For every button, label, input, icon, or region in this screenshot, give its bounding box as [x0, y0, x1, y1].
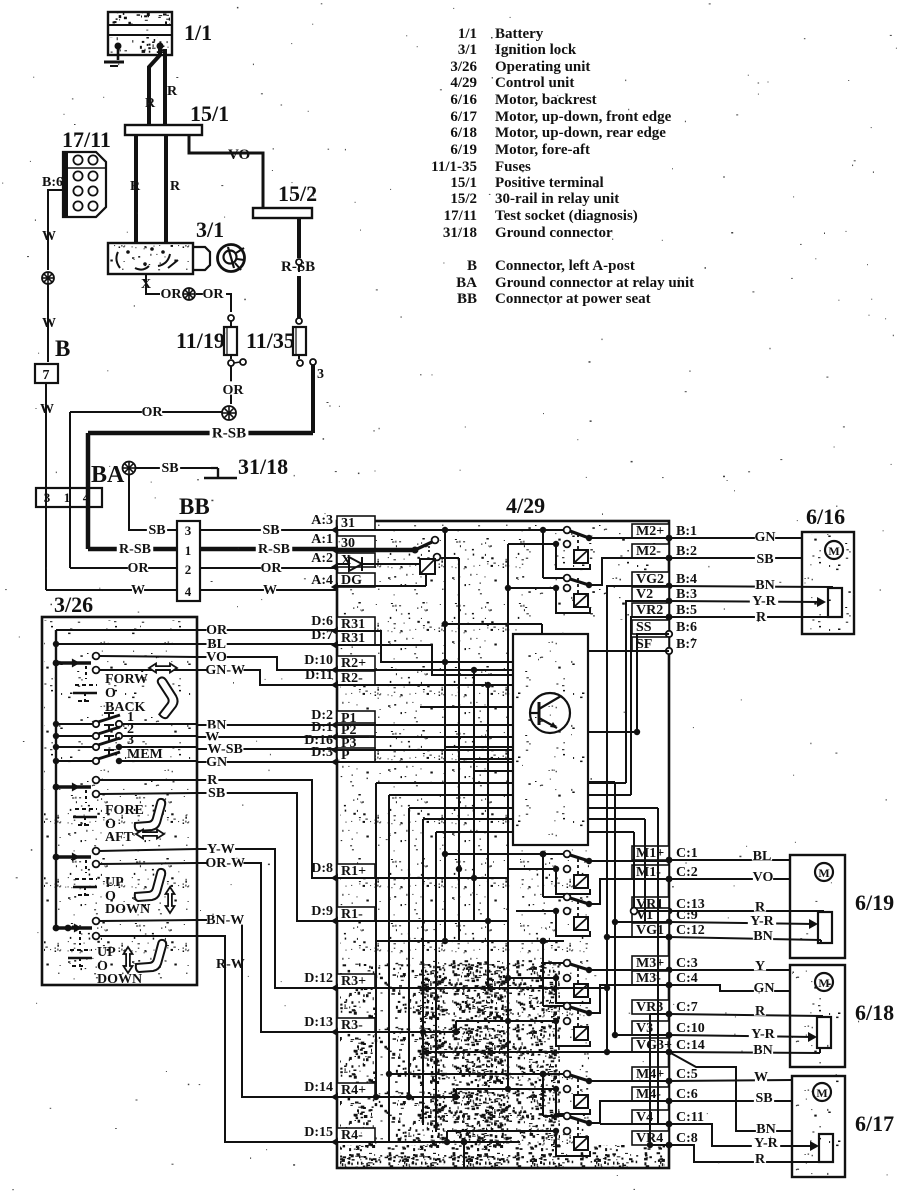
pin VG3+ / C:14 on 4/29 right edge	[632, 1038, 669, 1052]
wire OR into BB	[70, 567, 177, 569]
svg-text:6/18: 6/18	[450, 125, 477, 141]
wire GN-W from 3/26 to 4/29 D:11	[197, 670, 337, 685]
pin M3+ / C:3 on 4/29 right edge	[632, 956, 669, 970]
wire OR BB to A:2	[200, 567, 337, 569]
svg-text:A:2: A:2	[311, 551, 333, 566]
pin VG1 / C:12 on 4/29 right edge	[632, 923, 669, 937]
switch group up/down front	[53, 925, 60, 932]
wire R battery to 15/1 right	[163, 49, 167, 125]
svg-text:C:5: C:5	[676, 1067, 698, 1082]
svg-text:3/1: 3/1	[196, 217, 224, 242]
svg-text:D:15: D:15	[304, 1125, 333, 1140]
svg-text:6/17: 6/17	[450, 109, 477, 125]
svg-text:Motor, fore-aft: Motor, fore-aft	[495, 142, 590, 158]
motor 6/16 potentiometer	[828, 588, 842, 617]
svg-text:D:8: D:8	[311, 861, 333, 876]
wire Y-R to 6/18	[669, 1035, 813, 1037]
svg-text:D:11: D:11	[305, 668, 333, 683]
svg-text:B:3: B:3	[676, 587, 697, 602]
pin 31 on 4/29 left edge	[337, 516, 375, 530]
svg-text:M2+: M2+	[636, 524, 664, 539]
wire OR down to BB pin2	[69, 412, 71, 568]
svg-text:Battery: Battery	[495, 26, 544, 42]
svg-text:D:14: D:14	[304, 1080, 333, 1095]
wire R-SB into BB	[88, 547, 177, 552]
relay group M4	[389, 1073, 564, 1075]
svg-text:7: 7	[43, 368, 50, 383]
seat icon up/down front	[136, 940, 166, 972]
pin VR4 / C:8 on 4/29 right edge	[632, 1131, 669, 1145]
svg-text:Ground connector: Ground connector	[495, 225, 613, 241]
svg-text:R: R	[170, 179, 181, 194]
pin R2+ on 4/29 left edge	[337, 656, 375, 670]
svg-text:R3+: R3+	[341, 974, 366, 989]
wire R 15/1 to ignition left	[134, 135, 138, 243]
svg-text:C:11: C:11	[676, 1110, 704, 1125]
relay group M3	[376, 940, 564, 942]
wire DG to coil	[337, 585, 426, 587]
pin VG2 / B:4 on 4/29 right edge	[632, 572, 669, 586]
svg-text:Y-R: Y-R	[751, 1027, 775, 1042]
wire BN from 3/26 to 4/29 D:2	[197, 724, 337, 726]
svg-text:SB: SB	[148, 523, 165, 538]
ground connector at BA	[123, 462, 136, 475]
pin M1+ / C:1 on 4/29 right edge	[632, 846, 669, 860]
wire BN to 6/19	[669, 937, 821, 940]
svg-text:Ground connector at relay unit: Ground connector at relay unit	[495, 275, 694, 291]
svg-text:D:6: D:6	[311, 614, 333, 629]
motor 6/18 M symbol	[815, 973, 833, 991]
wire GN to 6/16	[669, 537, 802, 539]
wire V4 to C:11	[600, 1123, 669, 1125]
svg-text:M2-: M2-	[636, 544, 661, 559]
wire SS feed	[637, 634, 669, 732]
svg-text:M: M	[818, 866, 829, 880]
switch group forward/back	[53, 660, 60, 667]
pin VR1 / C:13 on 4/29 right edge	[632, 897, 669, 911]
svg-text:17/11: 17/11	[62, 127, 111, 152]
pin M2- / B:2 on 4/29 right edge	[632, 544, 669, 558]
svg-text:4: 4	[83, 490, 90, 505]
diode at X input	[337, 563, 349, 565]
svg-text:R: R	[145, 96, 156, 111]
wire VG2 rail	[607, 586, 669, 1052]
relay coil for 30/X	[420, 559, 435, 574]
wire R-W from 3/26 to 4/29 D:15	[197, 936, 337, 1142]
seat icon forw/back	[141, 676, 185, 720]
wire M2- to B:2	[589, 558, 669, 585]
svg-text:11/19: 11/19	[176, 328, 225, 353]
svg-text:6/16: 6/16	[450, 92, 477, 108]
svg-text:1/1: 1/1	[184, 20, 212, 45]
wire SB from 3/26 to 4/29 D:9	[197, 793, 337, 921]
svg-text:6/16: 6/16	[806, 504, 845, 529]
wire R to 6/16	[669, 616, 833, 618]
pin R3- on 4/29 left edge	[337, 1018, 375, 1032]
wire R 15/1 to ignition right	[164, 135, 168, 243]
svg-text:R1-: R1-	[341, 907, 363, 922]
svg-text:3/26: 3/26	[450, 59, 477, 75]
wire R-SB 15/2 to fuse 11/35	[297, 218, 301, 258]
svg-text:R4+: R4+	[341, 1083, 366, 1098]
svg-text:R: R	[167, 84, 178, 99]
pin P on 4/29 left edge	[337, 748, 375, 762]
svg-text:31/18: 31/18	[443, 225, 477, 241]
svg-text:C:6: C:6	[676, 1087, 698, 1102]
switch group up/down rear	[53, 854, 60, 861]
wire R-SB BB to A:1	[200, 547, 337, 552]
svg-text:R: R	[755, 1004, 766, 1019]
wire OR-W from 3/26 to 4/29 D:13	[197, 863, 337, 1032]
wire W BB to A:4	[200, 589, 337, 591]
svg-text:15/1: 15/1	[190, 101, 229, 126]
pin 30 on 4/29 left edge	[337, 536, 375, 550]
staircase wire 2	[389, 794, 631, 796]
svg-text:GN: GN	[206, 755, 227, 770]
wire BL from 3/26 to 4/29 D:7	[197, 643, 337, 645]
relay coil K2 upper	[508, 543, 553, 545]
wire BL to 6/19	[669, 859, 790, 861]
pin R1+ on 4/29 left edge	[337, 864, 375, 878]
svg-text:BA: BA	[456, 275, 477, 291]
electronic unit box with transistor	[513, 634, 588, 845]
pin VR3 / C:7 on 4/29 right edge	[632, 1000, 669, 1014]
svg-text:3/1: 3/1	[458, 42, 477, 58]
wire SF from K box	[588, 650, 669, 652]
pin P3 on 4/29 left edge	[337, 736, 375, 750]
wire V1 to C:9	[615, 921, 669, 923]
wire SB to 6/16	[669, 557, 802, 559]
fuse 11/35	[296, 259, 302, 265]
memory contacts 1 2 3 MEM	[53, 721, 59, 727]
fuse 11/19	[230, 321, 232, 327]
motor 6/16 M symbol	[825, 541, 843, 559]
svg-text:SS: SS	[636, 620, 652, 635]
pin VR2 / B:5 on 4/29 right edge	[632, 603, 669, 617]
svg-text:4/29: 4/29	[450, 75, 477, 91]
svg-text:6/19: 6/19	[855, 890, 894, 915]
motor 6/18 potentiometer	[817, 1017, 831, 1048]
svg-text:BL: BL	[753, 849, 772, 864]
staircase wire 3	[409, 807, 658, 809]
wire R-SB horizontal	[88, 431, 313, 436]
wire R4- inner	[337, 1141, 520, 1143]
wire OR inside 3/26	[56, 629, 197, 631]
pin V2 / B:3 on 4/29 right edge	[632, 587, 669, 601]
vertical rail C	[473, 670, 475, 921]
wire W from 3/26 to 4/29 D:1	[197, 736, 337, 738]
K box right edge connections	[588, 731, 637, 733]
wire GN to 6/18	[669, 985, 790, 991]
svg-text:Y-R: Y-R	[754, 1136, 778, 1151]
svg-text:Positive terminal: Positive terminal	[495, 175, 604, 191]
wire OR from ignition X	[146, 274, 160, 294]
svg-text:17/11: 17/11	[444, 208, 477, 224]
wire R3- inner	[337, 1031, 460, 1033]
ignition connector nose	[193, 247, 210, 270]
wire OR below fuse 11/19	[230, 366, 232, 404]
pin M1- / C:2 on 4/29 right edge	[632, 865, 669, 879]
wire R-SB down to BB pin1	[86, 433, 91, 549]
svg-text:BB: BB	[179, 494, 210, 519]
svg-text:Fuses: Fuses	[495, 159, 531, 175]
wire VO to 6/19	[669, 878, 790, 880]
svg-text:6/18: 6/18	[855, 1000, 894, 1025]
svg-text:30-rail in relay unit: 30-rail in relay unit	[495, 191, 619, 207]
svg-text:Motor, up-down, rear edge: Motor, up-down, rear edge	[495, 125, 666, 141]
svg-text:M3+: M3+	[636, 956, 664, 971]
motor 6/17 box	[792, 1076, 845, 1177]
svg-text:R-SB: R-SB	[212, 426, 246, 442]
svg-text:W: W	[263, 583, 277, 598]
svg-text:VG2: VG2	[636, 572, 664, 587]
pin M3- / C:4 on 4/29 right edge	[632, 971, 669, 985]
pin SS / B:6 on 4/29 right edge	[632, 620, 669, 634]
svg-text:R-SB: R-SB	[119, 542, 151, 557]
wire R3- to V3 coil	[456, 1020, 516, 1022]
svg-text:3: 3	[127, 733, 134, 748]
wire SB to 6/17	[669, 1100, 792, 1102]
svg-text:R2+: R2+	[341, 656, 366, 671]
relay group M1	[445, 853, 564, 855]
svg-text:DOWN: DOWN	[105, 902, 150, 917]
pin P2 on 4/29 left edge	[337, 723, 375, 737]
wire Y to 6/18	[669, 969, 790, 971]
svg-text:C:14: C:14	[676, 1038, 705, 1053]
pin R31 on 4/29 left edge	[337, 631, 375, 645]
pin R2- on 4/29 left edge	[337, 671, 375, 685]
wire R-SB from fuse 11/35	[311, 365, 315, 433]
pin V4 / C:11 on 4/29 right edge	[632, 1110, 669, 1124]
svg-text:BN: BN	[753, 929, 772, 944]
battery 1/1	[108, 12, 172, 55]
svg-text:3: 3	[317, 367, 324, 382]
motor 6/16 box	[802, 532, 854, 634]
wire VG3 to C:14	[607, 1051, 669, 1053]
svg-text:BA: BA	[91, 462, 125, 488]
switch M2 lower	[542, 530, 544, 578]
svg-text:C:1: C:1	[676, 846, 698, 861]
motor 6/18 box	[790, 965, 845, 1067]
wire VR3 to C:7	[650, 1013, 669, 1015]
svg-text:C:2: C:2	[676, 865, 698, 880]
vertical rail E	[507, 544, 509, 1089]
positive terminal 15/1	[125, 125, 202, 135]
staircase wire 5	[436, 831, 634, 833]
wire SB BB to A:3	[200, 529, 337, 531]
svg-text:R3-: R3-	[341, 1018, 363, 1033]
svg-text:OR: OR	[161, 287, 183, 302]
relay coil K2 lower	[508, 587, 553, 589]
svg-text:R: R	[756, 610, 767, 625]
svg-text:R31: R31	[341, 617, 365, 632]
svg-text:R4-: R4-	[341, 1128, 363, 1143]
svg-text:OR: OR	[261, 561, 283, 576]
wire Y-R to 6/19	[669, 922, 814, 924]
wire R1- inner	[337, 920, 508, 922]
transistor symbol	[530, 693, 570, 733]
3/26 internal bus	[55, 630, 57, 928]
wire SB to ground 31/18	[136, 467, 211, 469]
svg-text:R-SB: R-SB	[258, 542, 290, 557]
vertical rail D	[487, 685, 489, 988]
wire VR1 to C:13	[638, 910, 669, 912]
wire OR to BA	[70, 411, 222, 413]
svg-text:6/17: 6/17	[855, 1111, 894, 1136]
svg-text:VR2: VR2	[636, 603, 663, 618]
svg-text:B:2: B:2	[676, 544, 697, 559]
30-rail 15/2	[253, 208, 312, 218]
pin V1 / C:9 on 4/29 right edge	[632, 908, 669, 922]
svg-text:W: W	[42, 316, 56, 331]
wire SB from BA ground down to BB pin3	[129, 474, 177, 530]
svg-text:W: W	[131, 583, 145, 598]
svg-text:W: W	[40, 402, 54, 417]
svg-text:OR: OR	[142, 405, 164, 420]
svg-text:15/2: 15/2	[278, 181, 317, 206]
svg-text:4: 4	[185, 584, 192, 599]
wire M2+ out to B:1	[589, 537, 669, 539]
wire into K box	[420, 706, 513, 708]
motor 6/19 box	[790, 855, 845, 958]
svg-text:BB: BB	[457, 291, 477, 307]
motor 6/19 potentiometer	[818, 912, 832, 943]
wire VR2 feed	[631, 617, 669, 795]
svg-text:BN: BN	[753, 1043, 772, 1058]
svg-text:31/18: 31/18	[238, 454, 288, 479]
svg-text:D:10: D:10	[304, 653, 333, 668]
svg-text:A:4: A:4	[311, 573, 333, 588]
svg-text:3: 3	[185, 523, 192, 538]
svg-text:3: 3	[44, 490, 51, 505]
svg-text:O: O	[105, 686, 116, 701]
crossing line at 625	[445, 623, 542, 625]
svg-text:1: 1	[64, 490, 71, 505]
svg-text:15/2: 15/2	[450, 191, 477, 207]
svg-text:B:6: B:6	[42, 175, 63, 190]
svg-text:C:4: C:4	[676, 971, 698, 986]
connector junction on W wire	[42, 272, 54, 284]
svg-text:FORW: FORW	[105, 672, 148, 687]
pin R3+ on 4/29 left edge	[337, 974, 375, 988]
motor 6/17 potentiometer	[819, 1134, 833, 1162]
long vertical rail B	[458, 558, 460, 941]
wire V3 to C:10	[615, 1034, 669, 1036]
staircase wire 4	[423, 818, 645, 820]
wire W into BB	[46, 589, 177, 591]
wire VG1 to C:12	[607, 936, 669, 938]
wire R1+ inner	[337, 877, 508, 879]
wire VG3 inner rail	[423, 1051, 607, 1053]
svg-text:Test socket (diagnosis): Test socket (diagnosis)	[495, 208, 638, 224]
ground symbol 31/18	[211, 467, 218, 469]
svg-text:Motor, up-down, front edge: Motor, up-down, front edge	[495, 109, 672, 125]
pin P1 on 4/29 left edge	[337, 711, 375, 725]
svg-text:DOWN: DOWN	[97, 972, 142, 987]
svg-text:A:1: A:1	[311, 532, 333, 547]
svg-text:Connector, left A-post: Connector, left A-post	[495, 258, 635, 274]
wire BN-W from 3/26 to 4/29 D:14	[197, 920, 337, 1097]
wires P1 P2 P3 P	[337, 724, 513, 726]
svg-text:Control unit: Control unit	[495, 75, 574, 91]
svg-text:R31: R31	[341, 631, 365, 646]
wire BL inside 3/26	[56, 643, 197, 645]
wire R4- to VR4 coil	[447, 1130, 516, 1132]
motor 6/17 M symbol	[813, 1083, 831, 1101]
svg-text:D:3: D:3	[311, 745, 333, 760]
svg-text:R: R	[755, 1152, 766, 1167]
svg-text:6/19: 6/19	[450, 142, 477, 158]
svg-text:GN: GN	[755, 530, 776, 545]
svg-text:VO: VO	[753, 870, 774, 885]
svg-text:MEM: MEM	[127, 747, 163, 762]
svg-text:AFT: AFT	[105, 830, 134, 845]
svg-text:Motor, backrest: Motor, backrest	[495, 92, 597, 108]
wire Y-W from 3/26 to 4/29 D:12	[197, 849, 337, 988]
svg-text:31: 31	[341, 516, 355, 531]
wire R31 lower staircase	[337, 645, 513, 675]
wire W to 6/17	[669, 1080, 792, 1081]
svg-text:SB: SB	[755, 1091, 772, 1106]
svg-text:W: W	[754, 1070, 768, 1085]
svg-text:OR: OR	[223, 383, 245, 398]
svg-text:11/35: 11/35	[246, 328, 295, 353]
wire from 30 contact down rail B	[440, 557, 459, 559]
svg-text:B:4: B:4	[676, 572, 697, 587]
pin V3 / C:10 on 4/29 right edge	[632, 1021, 669, 1035]
wire 30 thick with contact	[337, 548, 415, 553]
stub wires into K box left edge	[445, 746, 513, 748]
wire Y-R to 6/17 from C:11	[669, 1124, 815, 1146]
svg-text:OR: OR	[203, 287, 225, 302]
svg-text:R-W: R-W	[216, 957, 245, 972]
svg-text:SB: SB	[161, 461, 178, 476]
long vertical rail A	[444, 530, 446, 941]
svg-text:B: B	[467, 258, 477, 274]
pin X on 4/29 left edge	[337, 553, 375, 567]
key symbol	[218, 245, 245, 272]
wire R3+ inner	[337, 987, 607, 989]
svg-text:VG1: VG1	[636, 923, 664, 938]
pin R1- on 4/29 left edge	[337, 907, 375, 921]
svg-text:R: R	[130, 179, 141, 194]
svg-text:1: 1	[185, 543, 192, 558]
wire W-SB from 3/26 to 4/29 D:16	[197, 748, 337, 750]
wire R31 upper staircase	[337, 631, 513, 662]
pin R4- on 4/29 left edge	[337, 1128, 375, 1142]
wire W below connector B	[45, 383, 47, 590]
wire BN to 6/16	[669, 586, 833, 587]
staircase wire 1	[376, 782, 626, 784]
svg-text:GN-W: GN-W	[205, 663, 245, 678]
svg-text:2: 2	[185, 562, 192, 577]
pin R4+ on 4/29 left edge	[337, 1083, 375, 1097]
wire Y-R to 6/16	[669, 601, 822, 602]
svg-text:SB: SB	[756, 552, 773, 567]
wire R2+	[337, 669, 513, 671]
svg-text:C:3: C:3	[676, 956, 698, 971]
wire 31 feed to relay M2	[337, 529, 564, 531]
wire R to 6/17 from C:8	[669, 1145, 824, 1162]
svg-text:Y: Y	[755, 959, 765, 974]
seat icon up/down rear	[135, 869, 165, 901]
wire R2-	[337, 684, 513, 686]
svg-text:B:1: B:1	[676, 524, 697, 539]
svg-text:B: B	[55, 336, 70, 361]
ground connector OR junction	[222, 406, 236, 420]
svg-text:C:7: C:7	[676, 1000, 698, 1015]
svg-text:R1+: R1+	[341, 864, 366, 879]
